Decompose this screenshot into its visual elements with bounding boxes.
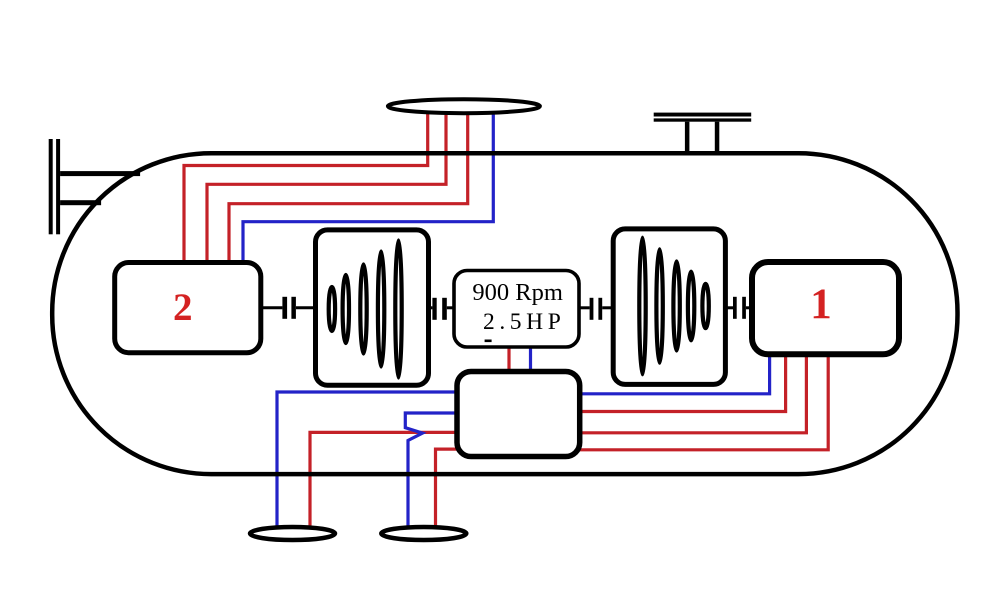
svg-text:900 Rpm: 900 Rpm — [472, 279, 563, 306]
svg-text:1: 1 — [810, 281, 832, 328]
svg-text:2.5HP: 2.5HP — [483, 309, 565, 335]
svg-text:2: 2 — [173, 286, 193, 329]
